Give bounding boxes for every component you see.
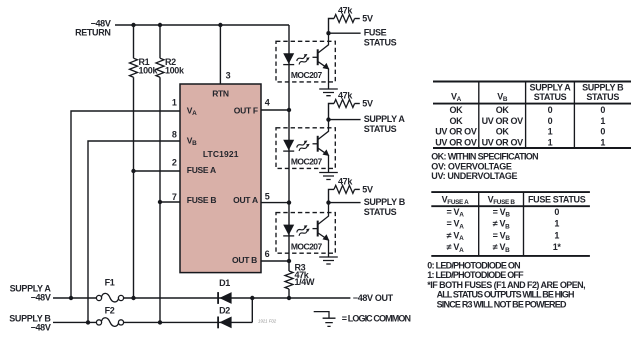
svg-text:UV OR OV: UV OR OV (435, 127, 477, 137)
optocoupler U4 MOC207 box (276, 203, 338, 264)
note LED/photodiode and fuse open (427, 261, 585, 310)
svg-text:1: 1 (600, 116, 605, 126)
junction status node (326, 117, 330, 121)
wire FUSE A pin 2 (134, 170, 181, 172)
U2 phototransistor (313, 56, 318, 58)
U3 ground (319, 173, 338, 180)
svg-text:1/4W: 1/4W (295, 277, 315, 287)
svg-text:0: 0 (600, 105, 605, 115)
svg-text:SUPPLY A: SUPPLY A (364, 114, 406, 124)
svg-text:UV OR OV: UV OR OV (482, 116, 524, 126)
svg-text:−48V: −48V (31, 322, 51, 332)
junction node (131, 169, 135, 173)
U4 LED photodiode (283, 225, 294, 236)
wire OUT F pin 4 (261, 109, 289, 111)
junction node (287, 200, 291, 204)
svg-text:RETURN: RETURN (75, 28, 110, 38)
svg-text:0: 0 (554, 207, 559, 217)
label SUPPLY B STATUS (364, 197, 406, 217)
svg-text:MOC207: MOC207 (291, 70, 323, 80)
svg-text:1921 F02: 1921 F02 (258, 318, 277, 323)
junction status node (326, 31, 330, 35)
svg-text:FUSE B: FUSE B (187, 195, 217, 205)
svg-text:1: 1 (554, 219, 559, 229)
svg-text:47k: 47k (338, 176, 353, 186)
resistor R3 47k 1/4W (285, 262, 315, 289)
junction node (250, 296, 254, 300)
table: supply status truth table (433, 82, 631, 149)
op-amp U1 LTC1921 supervisor IC body (180, 84, 261, 273)
optocoupler U2 MOC207 box (276, 33, 338, 95)
svg-text:FUSE STATUS: FUSE STATUS (528, 195, 586, 205)
svg-text:F2: F2 (105, 306, 115, 316)
svg-text:47k: 47k (338, 90, 353, 100)
junction node (287, 296, 291, 300)
wire OUT B pin 6 (261, 260, 289, 262)
svg-text:UV OR OV: UV OR OV (435, 137, 477, 147)
svg-text:0: 0 (548, 116, 553, 126)
junction node (86, 320, 90, 324)
svg-text:STATUS: STATUS (364, 207, 397, 217)
U4 light arrows (296, 224, 309, 234)
svg-text:RTN: RTN (212, 88, 229, 98)
svg-text:*IF BOTH FUSES (F1 AND F2) ARE: *IF BOTH FUSES (F1 AND F2) ARE OPEN, (427, 280, 585, 290)
svg-text:LTC1921: LTC1921 (203, 149, 239, 159)
wire status output (329, 32, 361, 34)
svg-text:1: 1 (600, 137, 605, 147)
svg-text:OUT F: OUT F (234, 106, 258, 116)
svg-text:UV: UNDERVOLTAGE: UV: UNDERVOLTAGE (431, 171, 517, 181)
svg-text:47k: 47k (338, 5, 353, 15)
svg-text:SUPPLY B: SUPPLY B (582, 82, 624, 92)
svg-text:OK: OK (496, 127, 510, 137)
svg-text:OK: OK (449, 105, 463, 115)
svg-text:STATUS: STATUS (364, 124, 397, 134)
svg-text:OK: OK (496, 105, 510, 115)
svg-text:1: LED/PHOTODIODE OFF: 1: LED/PHOTODIODE OFF (427, 270, 524, 280)
junction node (158, 320, 162, 324)
wire OUT A pin 5 (261, 202, 289, 204)
resistor 47k pull-up for U3 (329, 90, 373, 119)
svg-text:D1: D1 (219, 278, 230, 288)
svg-text:MOC207: MOC207 (291, 157, 323, 167)
junction node (131, 296, 135, 300)
resistor R1 100k (130, 25, 159, 298)
svg-text:1: 1 (554, 231, 559, 241)
U2 LED photodiode (283, 53, 294, 64)
svg-text:5V: 5V (362, 14, 373, 24)
svg-text:4: 4 (265, 97, 270, 107)
svg-text:3: 3 (226, 71, 231, 81)
svg-text:100k: 100k (139, 66, 159, 76)
svg-text:8: 8 (172, 129, 177, 139)
junction node (287, 108, 291, 112)
svg-text:5V: 5V (362, 185, 373, 195)
wire SUPPLY B rail (53, 298, 252, 322)
note OK/OV/UV definitions (431, 152, 538, 181)
svg-text:UV OR OV: UV OR OV (482, 137, 524, 147)
wire status output (329, 202, 361, 204)
svg-text:= LOGIC COMMON: = LOGIC COMMON (342, 313, 411, 323)
svg-text:OUT B: OUT B (232, 255, 257, 265)
svg-text:1: 1 (548, 137, 553, 147)
fuse F2 (96, 306, 123, 327)
optocoupler U3 MOC207 box (276, 120, 338, 180)
ground LOGIC COMMON symbol (314, 312, 336, 327)
wire VB pin 8 (88, 141, 180, 322)
wire LED chain vertical (288, 25, 290, 298)
junction node (218, 23, 222, 27)
label FUSE STATUS (364, 28, 397, 48)
svg-text:7: 7 (172, 192, 177, 202)
wire FUSE B pin 7 (160, 201, 180, 203)
svg-text:6: 6 (265, 249, 270, 259)
wire status output (329, 119, 361, 121)
resistor 47k pull-up for U2 (329, 5, 373, 33)
junction node (69, 296, 73, 300)
svg-text:0: 0 (548, 105, 553, 115)
svg-text:F1: F1 (105, 278, 115, 288)
svg-text:5V: 5V (362, 99, 373, 109)
svg-text:STATUS: STATUS (534, 92, 567, 102)
svg-text:MOC207: MOC207 (291, 241, 323, 251)
svg-text:1*: 1* (553, 242, 562, 252)
svg-text:FUSE A: FUSE A (187, 165, 216, 175)
junction status node (326, 200, 330, 204)
svg-text:STATUS: STATUS (586, 92, 619, 102)
svg-text:OK: WITHIN SPECIFICATION: OK: WITHIN SPECIFICATION (431, 152, 538, 162)
svg-text:OK: OK (449, 116, 463, 126)
label SUPPLY A STATUS (364, 114, 406, 134)
svg-text:FUSE: FUSE (364, 28, 387, 38)
svg-text:0: 0 (600, 127, 605, 137)
svg-text:OUT A: OUT A (233, 195, 258, 205)
svg-text:5: 5 (265, 192, 270, 202)
junction node (131, 23, 135, 27)
svg-text:OV: OVERVOLTAGE: OV: OVERVOLTAGE (431, 161, 512, 171)
U2 light arrows (296, 53, 309, 63)
svg-text:100k: 100k (165, 66, 185, 76)
wire -48V RETURN top rail (115, 24, 289, 26)
svg-text:ALL STATUS OUTPUTS WILL BE HIG: ALL STATUS OUTPUTS WILL BE HIGH (437, 290, 574, 300)
U3 LED photodiode (283, 140, 294, 151)
label SUPPLY B (9, 313, 51, 332)
wire VA pin 1 (71, 111, 180, 298)
wire SUPPLY A / -48V OUT rail (53, 297, 350, 299)
wire RTN pin 3 (219, 25, 221, 84)
svg-text:D2: D2 (219, 306, 230, 316)
svg-text:−48V: −48V (31, 293, 51, 303)
U3 light arrows (296, 139, 309, 149)
junction node (158, 200, 162, 204)
U2 ground (319, 89, 338, 96)
junction node (287, 259, 291, 263)
svg-text:SUPPLY B: SUPPLY B (364, 197, 406, 207)
table: fuse status truth table (431, 192, 590, 256)
U4 ground (319, 257, 338, 264)
junction node (158, 23, 162, 27)
resistor R2 100k (156, 25, 185, 322)
svg-text:1: 1 (172, 97, 177, 107)
svg-text:2: 2 (172, 158, 177, 168)
resistor 47k pull-up for U4 (329, 176, 373, 202)
svg-text:SINCE R3 WILL NOT BE POWERED: SINCE R3 WILL NOT BE POWERED (437, 299, 567, 309)
label -48V RETURN (75, 18, 111, 37)
U3 phototransistor (313, 143, 318, 145)
svg-text:−48V OUT: −48V OUT (353, 293, 394, 303)
svg-text:1: 1 (548, 127, 553, 137)
diode D1 (217, 278, 231, 304)
fuse F1 (96, 278, 123, 302)
svg-text:STATUS: STATUS (364, 38, 397, 48)
label SUPPLY A (10, 284, 52, 303)
svg-text:SUPPLY A: SUPPLY A (530, 82, 572, 92)
U4 phototransistor (313, 228, 318, 230)
diode D2 (217, 306, 231, 329)
